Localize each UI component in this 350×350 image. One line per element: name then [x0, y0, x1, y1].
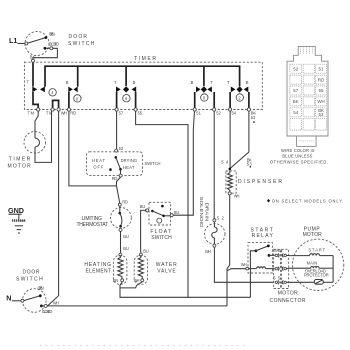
- svg-text:B: B: [133, 80, 136, 85]
- svg-text:52: 52: [293, 66, 298, 71]
- label WATER VALVE: [156, 262, 177, 274]
- timer cam switch contact 2: [227, 80, 249, 101]
- svg-text:RD: RD: [112, 176, 118, 181]
- svg-text:MAIN: MAIN: [307, 261, 318, 266]
- svg-text:MOTOR: MOTOR: [8, 163, 32, 169]
- svg-text:MOTOR: MOTOR: [303, 232, 323, 238]
- svg-text:T: T: [27, 80, 30, 85]
- pump motor overload protector: [289, 256, 333, 285]
- svg-text:55: 55: [273, 276, 281, 281]
- svg-text:52: 52: [216, 110, 221, 115]
- float switch: [146, 202, 173, 225]
- label PUMP MOTOR: [303, 226, 323, 238]
- label LIMITING THERMOSTAT: [77, 216, 109, 228]
- svg-text:B: B: [66, 80, 69, 85]
- pump motor M2: [292, 239, 343, 290]
- wire dispenser WH down to N rail and relay coil branch: [227, 195, 246, 306]
- label TIMER MOTOR: [8, 156, 32, 169]
- wires contact0 to terminals 51 52: [193, 92, 221, 115]
- svg-text:TIMER: TIMER: [9, 156, 31, 162]
- note on select models: [267, 199, 343, 204]
- svg-text:SWITCH: SWITCH: [151, 235, 172, 241]
- wire heat switch output RD to thermostat: [112, 176, 128, 206]
- svg-text:BU: BU: [140, 204, 146, 209]
- svg-text:51: 51: [319, 66, 324, 71]
- wire terminal WH down to N-side junction: [48, 111, 59, 306]
- svg-text:T: T: [210, 80, 213, 85]
- label FLOAT SWITCH: [150, 229, 172, 241]
- timer cam switch contact 4: [27, 80, 57, 97]
- scan artifact line: [40, 345, 248, 347]
- ground: [8, 206, 25, 233]
- svg-text:54: 54: [232, 110, 237, 115]
- wire N rail: [47, 301, 227, 306]
- svg-text:54: 54: [293, 110, 298, 115]
- wire drain solenoid to motor connector 55: [214, 247, 281, 282]
- water valve solenoid: [134, 255, 148, 284]
- wires contact2 to terminals 54 53: [229, 92, 257, 123]
- svg-text:DOOR: DOOR: [23, 269, 40, 275]
- svg-text:OTHERWISE SPECIFIED.: OTHERWISE SPECIFIED.: [270, 160, 328, 165]
- svg-text:51: 51: [196, 110, 201, 115]
- svg-text:BU: BU: [123, 234, 129, 239]
- wire timer 54 and 53 to dispenser node: [221, 111, 252, 170]
- limiting thermostat: [111, 206, 132, 231]
- svg-text:57: 57: [293, 88, 298, 93]
- wire N to door switch: [12, 300, 21, 302]
- svg-text:GND: GND: [8, 206, 24, 215]
- dispenser solenoid: [226, 170, 240, 198]
- svg-text:B: B: [246, 80, 249, 85]
- timer cam switch contact 6: [114, 80, 136, 102]
- svg-text:FLOAT: FLOAT: [150, 229, 171, 235]
- connector cells: [290, 64, 327, 130]
- svg-text:55: 55: [319, 88, 324, 93]
- label HEATING ELEMENT: [84, 262, 111, 274]
- wire timer supply bus: [45, 66, 240, 87]
- node L1: [9, 36, 17, 45]
- svg-text:PROTECTOR: PROTECTOR: [304, 272, 329, 277]
- wire contact8 to terminal RD: [67, 92, 76, 115]
- connector pins row1 row2 row3: [275, 254, 289, 285]
- label MOTOR CONNECTOR: [270, 291, 306, 304]
- timer cam switch contact 0: [191, 80, 214, 101]
- svg-text:SWITCH: SWITCH: [68, 41, 95, 47]
- svg-text:WH: WH: [61, 110, 67, 115]
- svg-text:HEATING: HEATING: [84, 262, 111, 268]
- label DISPENSER: [238, 179, 282, 185]
- svg-text:OPEN: OPEN: [38, 286, 44, 291]
- svg-text:DOOR: DOOR: [69, 34, 88, 40]
- svg-text:SWITCH: SWITCH: [145, 161, 161, 166]
- svg-text:53: 53: [119, 146, 124, 151]
- svg-text:L1: L1: [9, 36, 17, 45]
- motor connector: [274, 248, 289, 288]
- svg-text:B: B: [191, 80, 194, 85]
- svg-text:WIRE COLOR IS: WIRE COLOR IS: [281, 148, 315, 153]
- svg-text:BU: BU: [174, 210, 180, 215]
- label DOOR SWITCH (lower): [16, 269, 43, 282]
- svg-text:57: 57: [119, 110, 124, 115]
- pump motor start winding: [289, 247, 333, 255]
- svg-text:CLOSED: CLOSED: [49, 42, 60, 47]
- svg-text:RD: RD: [122, 200, 128, 205]
- svg-text:BU: BU: [123, 246, 129, 251]
- label DRAIN SOLENOID (rotated): [199, 197, 210, 228]
- heat switch (heat off / drying heat): [87, 152, 143, 177]
- svg-text:THERMOSTAT: THERMOSTAT: [77, 222, 109, 228]
- svg-text:T: T: [114, 80, 117, 85]
- svg-text:OPEN: OPEN: [49, 32, 55, 37]
- svg-text:N: N: [6, 294, 11, 303]
- svg-text:LIMITING: LIMITING: [82, 216, 103, 222]
- svg-text:WBT: WBT: [274, 248, 284, 253]
- svg-text:WH: WH: [234, 193, 240, 198]
- svg-text:DISPENSER: DISPENSER: [238, 179, 282, 185]
- svg-text:DRAINSOLENOID: DRAINSOLENOID: [199, 197, 210, 228]
- svg-text:52: 52: [217, 215, 225, 220]
- timer motor M1: [24, 111, 52, 162]
- node N: [6, 294, 11, 303]
- label START RELAY: [251, 227, 274, 239]
- wire timer 55 down right side: [136, 111, 188, 297]
- wire terminal RD down and across to heat switch output: [69, 111, 117, 186]
- svg-text:TM: TM: [28, 110, 35, 115]
- wire float switch output BU to timer 51: [173, 111, 194, 215]
- svg-text:53: 53: [319, 112, 324, 117]
- svg-text:RELAY: RELAY: [252, 233, 274, 239]
- svg-text:VALVE: VALVE: [157, 268, 176, 274]
- svg-text:MOTOR: MOTOR: [278, 291, 298, 297]
- wire thermostat to heating element BU: [119, 231, 129, 256]
- labels HEAT OFF / DRYING HEAT / SWITCH: [92, 158, 161, 170]
- door switch S1 (upper): [25, 32, 59, 56]
- svg-text:WH: WH: [317, 99, 324, 104]
- wire timer 52 down to drain solenoid: [213, 111, 225, 222]
- wire terminal 57 down to node 53: [115, 111, 124, 152]
- label DOOR SWITCH (upper): [68, 34, 95, 47]
- svg-text:CLOSED: CLOSED: [42, 309, 53, 314]
- svg-text:53: 53: [251, 115, 256, 120]
- svg-text:T: T: [227, 80, 230, 85]
- svg-text:53: 53: [247, 162, 253, 167]
- wire contact4 to terminal TM1: [28, 92, 40, 115]
- pump motor main winding: [289, 261, 333, 269]
- heater/valve return rail: [120, 282, 250, 298]
- svg-text:TIMER: TIMER: [134, 56, 156, 62]
- svg-text:HEAT: HEAT: [123, 165, 135, 170]
- svg-text:WH: WH: [53, 301, 59, 306]
- svg-text:HEAT: HEAT: [92, 158, 105, 163]
- svg-text:WH: WH: [205, 249, 211, 254]
- svg-text:WATER: WATER: [156, 262, 177, 268]
- svg-text:RD: RD: [70, 110, 76, 115]
- timer cam switch contact 8: [66, 80, 81, 102]
- svg-text:BK: BK: [293, 99, 299, 104]
- label TIMER: [134, 56, 156, 62]
- svg-text:CONNECTOR: CONNECTOR: [270, 298, 306, 304]
- wire water valve to float switch BU: [139, 204, 148, 256]
- wiring harness connector (top right): [287, 46, 328, 146]
- svg-text:ELEMENT: ELEMENT: [86, 269, 112, 275]
- drain solenoid: [204, 222, 225, 254]
- svg-text:BLUE UNLESS: BLUE UNLESS: [282, 154, 312, 159]
- svg-text:START: START: [308, 247, 325, 252]
- svg-text:OFF: OFF: [93, 164, 103, 169]
- start relay K1: [241, 243, 275, 298]
- svg-text:SWITCH: SWITCH: [16, 276, 43, 282]
- wire timer internal jumper TM2-WH: [46, 100, 67, 115]
- svg-text:ON SELECT MODELS ONLY.: ON SELECT MODELS ONLY.: [272, 199, 344, 204]
- heating element R1: [113, 255, 127, 284]
- door switch S2 (lower): [21, 286, 52, 314]
- wire door switch to timer terminal BK: [30, 48, 58, 86]
- svg-text:DRYING: DRYING: [121, 158, 137, 163]
- svg-text:54: 54: [221, 160, 229, 165]
- svg-text:RD: RD: [318, 77, 324, 82]
- wire L1 to door switch: [18, 43, 25, 45]
- svg-text:WH: WH: [241, 262, 247, 267]
- svg-text:55: 55: [138, 110, 143, 115]
- svg-text:WH: WH: [134, 278, 140, 283]
- note wire color: [270, 148, 328, 165]
- connector cell labels: [293, 66, 325, 116]
- svg-text:BU: BU: [143, 248, 149, 253]
- svg-text:BN: BN: [113, 278, 119, 283]
- timer box: [24, 62, 262, 109]
- wires contact6 to terminals 57 55: [115, 92, 143, 115]
